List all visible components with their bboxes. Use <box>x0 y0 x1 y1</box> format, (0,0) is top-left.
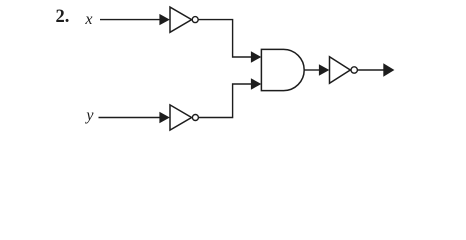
wire from AND gate output to inverter U4 <box>304 69 320 71</box>
wire from y to inverter U2 <box>99 117 162 119</box>
arrowhead at U2 input <box>159 112 169 123</box>
AND gate U3 <box>261 49 304 90</box>
svg-text:2.: 2. <box>56 7 70 27</box>
input label y <box>84 107 94 124</box>
inverter U1 (x input NOT gate) <box>170 7 198 32</box>
problem number label "2." <box>56 7 70 27</box>
arrowhead at U4 input <box>319 64 329 75</box>
arrowhead at AND gate top input <box>251 51 261 62</box>
arrowhead at U1 input <box>159 14 169 25</box>
inverter U4 (output NOT gate) <box>330 57 358 84</box>
svg-text:x: x <box>84 11 92 28</box>
output arrowhead <box>383 63 394 76</box>
wire from x to inverter U1 <box>100 19 161 21</box>
inverter U2 (y input NOT gate) <box>170 105 198 130</box>
wire from U1 output to AND gate top input <box>198 20 252 57</box>
output wire from U4 <box>358 69 384 71</box>
arrowhead at AND gate bottom input <box>251 78 261 89</box>
input label x <box>84 11 92 28</box>
svg-text:y: y <box>84 107 94 124</box>
wire from U2 output to AND gate bottom input <box>199 84 253 118</box>
